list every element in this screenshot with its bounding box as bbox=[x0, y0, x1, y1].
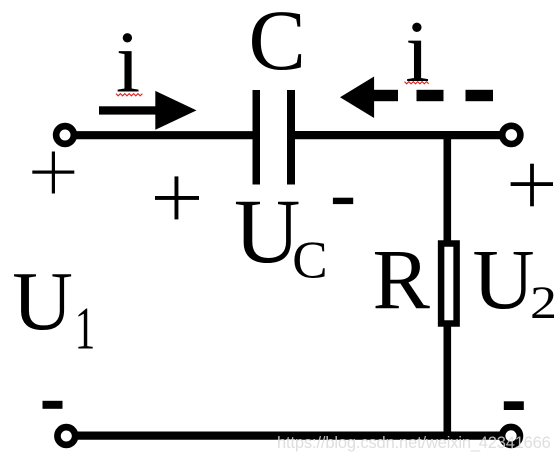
wire: top-left horizontal bbox=[64, 131, 253, 139]
svg-text:42341666: 42341666 bbox=[479, 434, 551, 452]
node: bottom-right terminal bbox=[502, 427, 520, 445]
svg-text:C: C bbox=[249, 0, 306, 88]
polarity + (for UC) bbox=[155, 176, 199, 219]
polarity - (bottom-right, for U2) bbox=[504, 401, 524, 410]
svg-text:U: U bbox=[473, 231, 535, 327]
capacitor C left plate bbox=[253, 90, 261, 185]
svg-text:i: i bbox=[405, 4, 429, 101]
wire: right vertical branch bbox=[443, 132, 451, 436]
svg-text:U: U bbox=[12, 255, 73, 348]
svg-text:1: 1 bbox=[75, 296, 95, 363]
polarity + (left, for U1) bbox=[32, 152, 74, 194]
svg-text:i: i bbox=[116, 15, 140, 112]
current arrow i (dashed, pointing left) bbox=[340, 77, 493, 119]
resistor R body bbox=[441, 244, 457, 324]
current arrow i (solid, pointing right) bbox=[99, 91, 197, 130]
svg-text:R: R bbox=[373, 231, 431, 327]
wire: top-right horizontal bbox=[294, 131, 511, 139]
wire: bottom horizontal bbox=[65, 432, 511, 440]
svg-text:https://blog.csdn.net/weixin_: https://blog.csdn.net/weixin_ bbox=[277, 434, 481, 452]
node: top-left terminal bbox=[56, 126, 74, 144]
polarity - (bottom-left, for U1) bbox=[43, 401, 63, 409]
polarity + (right, for U2) bbox=[511, 164, 553, 207]
svg-text:2: 2 bbox=[530, 276, 557, 328]
spellcheck squiggle under right i bbox=[405, 82, 429, 84]
polarity - (for UC) bbox=[333, 198, 353, 204]
svg-text:U: U bbox=[234, 180, 300, 282]
spellcheck squiggle under left i bbox=[116, 94, 142, 96]
node: bottom-left terminal bbox=[57, 427, 75, 445]
node: top-right terminal bbox=[502, 126, 520, 144]
capacitor C right plate bbox=[287, 90, 295, 185]
svg-text:C: C bbox=[292, 232, 327, 290]
